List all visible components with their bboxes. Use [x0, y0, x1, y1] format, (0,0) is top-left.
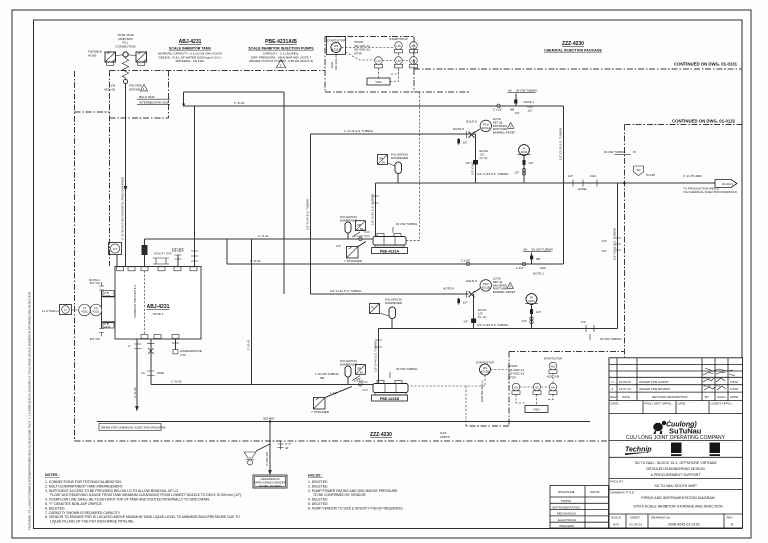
svg-text:PI: PI: [371, 306, 374, 310]
LT circle: [79, 304, 96, 316]
H3 right drop: [471, 134, 476, 183]
svg-text:VIA CHEMICAL INJECTION MANIFOL: VIA CHEMICAL INJECTION MANIFOLD: [683, 190, 738, 194]
dashed drop to boundary B: [465, 386, 467, 426]
svg-text:STN-5 SCALE INHIBITOR STORAGE: STN-5 SCALE INHIBITOR STORAGE AND INJECT…: [633, 505, 723, 509]
svg-text:3. SUFFICIENT ACCESS TO BE PR: 3. SUFFICIENT ACCESS TO BE PROVIDED BELO…: [45, 489, 178, 493]
svg-text:HOLD 8: HOLD 8: [466, 120, 477, 124]
level tag upper: [103, 291, 114, 299]
svg-text:PBE-4231A/B: PBE-4231A/B: [265, 39, 297, 45]
svg-text:HS: HS: [396, 44, 400, 48]
svg-text:DATE :: DATE :: [611, 402, 621, 406]
PSV cluster B: [443, 272, 544, 305]
svg-text:300 MIN: 300 MIN: [263, 417, 274, 421]
drain to header label: [265, 444, 272, 475]
svg-text:Technip: Technip: [625, 447, 652, 454]
svg-text:CHEMICAL INJECTION PACKAGE: CHEMICAL INJECTION PACKAGE: [544, 49, 602, 53]
start stop text B: [508, 364, 525, 379]
svg-text:1/2": 1/2": [602, 239, 607, 243]
svg-text:1/2": 1/2": [568, 174, 573, 178]
svg-text:4231-06: 4231-06: [104, 87, 115, 91]
suction dampener B: [340, 359, 365, 384]
H2 left drop to tank: [172, 106, 198, 267]
VSD box B: [525, 406, 548, 413]
svg-text:REVISION DESCRIPTION: REVISION DESCRIPTION: [652, 395, 688, 399]
hose connection square right: [128, 52, 147, 65]
svg-text:4231A: 4231A: [481, 126, 490, 130]
vent stub near drain: [278, 442, 291, 451]
riser A fittings: [465, 149, 488, 165]
VSD signal A: [406, 92, 420, 241]
svg-text:START/STOP: START/STOP: [544, 357, 563, 361]
pair B4: [549, 383, 557, 394]
package boundary right: [624, 125, 626, 442]
svg-text:BY12: BY12: [704, 384, 712, 388]
svg-text:NOTE 2: NOTE 2: [89, 278, 100, 282]
warning triangle under pump header: [276, 60, 285, 68]
svg-text:PIPING AND INSTRUMENTATION DIA: PIPING AND INSTRUMENTATION DIAGRAM: [641, 496, 714, 500]
svg-text:ABJ-4231: ABJ-4231: [147, 304, 170, 310]
svg-text:BY12: BY12: [704, 376, 712, 380]
svg-text:1/2"-O-43 S.S. TUBING: 1/2"-O-43 S.S. TUBING: [371, 193, 375, 225]
AV fitting on y264: [461, 248, 554, 271]
svg-text:1/2": 1/2": [515, 111, 520, 115]
suction manifold cross connect: [247, 239, 252, 384]
svg-text:ABJ-4231: ABJ-4231: [179, 39, 202, 45]
svg-text:HOLD 8: HOLD 8: [466, 279, 477, 283]
svg-text:1/2": 1/2": [602, 249, 607, 253]
svg-text:1/2"-O-46 S.S. TUBING: 1/2"-O-46 S.S. TUBING: [477, 323, 509, 327]
flexible hose zigzag: [122, 57, 128, 79]
svg-text:5. DELETED: 5. DELETED: [308, 502, 328, 506]
svg-text:1"-O-42 S.S. TUBING: 1"-O-42 S.S. TUBING: [344, 129, 374, 133]
tank bottom nozzles: [141, 335, 179, 339]
suction circle fitting A: [354, 234, 363, 241]
svg-text:(VENDOR TBD) NOTE 3: (VENDOR TBD) NOTE 3: [133, 284, 137, 318]
continued on dwg 01-0131: [414, 62, 742, 70]
svg-text:30 OW TUBING: 30 OW TUBING: [532, 248, 554, 252]
ESD rotated label A: [330, 53, 338, 70]
H3 left riser to train B: [306, 134, 311, 294]
fittings on H2 right: [493, 89, 538, 116]
svg-text:MECHANICAL: MECHANICAL: [557, 512, 577, 516]
suction circle fitting B: [354, 379, 363, 386]
svg-text:▲: ▲: [672, 448, 675, 452]
control cluster A start/stop box: [327, 37, 346, 55]
svg-text:1"x1/2": 1"x1/2": [461, 259, 470, 263]
svg-text:4231: 4231: [104, 294, 111, 298]
svg-text:1"-CI-75-4000: 1"-CI-75-4000: [683, 174, 702, 178]
svg-text:P&ID: P&ID: [157, 371, 165, 375]
svg-text:NOTE 8: NOTE 8: [443, 287, 454, 291]
svg-text:PI: PI: [360, 371, 363, 375]
bulk skid boundary top: [110, 70, 326, 72]
suction dampener A: [340, 215, 365, 239]
main discharge header: [376, 172, 716, 183]
line 1-O-42 H3: [311, 129, 476, 134]
svg-text:1/2": 1/2": [465, 161, 470, 165]
svg-text:C&C: C&C: [540, 266, 547, 270]
svg-text:& PROCUREMENT SUPPORT: & PROCUREMENT SUPPORT: [651, 473, 702, 477]
partner logo 1: [671, 443, 682, 457]
approval row labels: [611, 402, 734, 406]
revision header row: [610, 395, 739, 399]
svg-text:1/2"-O-44 S.S. TUBING: 1/2"-O-44 S.S. TUBING: [330, 289, 362, 293]
svg-text:5. "Y" DENOTES NON-ASP ORIFIC: 5. "Y" DENOTES NON-ASP ORIFICE.: [45, 502, 103, 506]
svg-text:1/2"-O-44 S.S. TUBING: 1/2"-O-44 S.S. TUBING: [306, 198, 310, 230]
svg-text:1/2": 1/2": [514, 171, 519, 175]
svg-text:30 OW TUBING: 30 OW TUBING: [516, 89, 538, 93]
svg-text:2008-4242-01-0130: 2008-4242-01-0130: [668, 523, 700, 527]
svg-text:4231A: 4231A: [332, 48, 341, 52]
svg-text:1"-O-41: 1"-O-41: [247, 339, 251, 350]
svg-text:ISSUED FOR REVIEW: ISSUED FOR REVIEW: [639, 387, 670, 391]
svg-text:4231: 4231: [93, 310, 100, 314]
PI gauge A right: [514, 145, 534, 183]
bottom data row: [609, 514, 743, 528]
tank feed line: [121, 84, 128, 267]
valve stack right: [602, 238, 621, 253]
svg-text:NOTE 8: NOTE 8: [453, 127, 464, 131]
train A suction line: [145, 234, 374, 239]
revision row 0: [612, 387, 739, 391]
svg-text:CONN. 01-0150: CONN. 01-0150: [259, 484, 281, 488]
flexible hose label: [88, 50, 102, 58]
utility station: [153, 252, 173, 265]
svg-text:ESD SD-4231-1: ESD SD-4231-1: [480, 380, 484, 402]
train B top line: [311, 289, 469, 294]
drain header line: [97, 417, 590, 422]
pump B discharge riser: [374, 329, 382, 384]
svg-text:NOTE 2: NOTE 2: [153, 312, 164, 316]
svg-text:1-1/2": 1-1/2": [516, 266, 524, 270]
pump PBE-4231A: [372, 234, 408, 254]
tank top nozzles: [117, 267, 198, 271]
svg-text:STOP: STOP: [508, 375, 516, 379]
svg-text:LIT: LIT: [113, 247, 118, 251]
svg-text:UA: UA: [514, 386, 518, 390]
header pumps PBE-4231A/B: [248, 39, 314, 63]
fill node: [123, 52, 128, 57]
CuuLong SuTuNau logo: [653, 420, 702, 436]
H1 to H2 drop: [182, 92, 185, 107]
svg-text:PIPING: PIPING: [561, 499, 572, 503]
svg-text:SCALE INHIBITOR TANK: SCALE INHIBITOR TANK: [169, 47, 212, 51]
svg-text:KJUR: KJUR: [730, 380, 739, 384]
svg-text:1/2"-O-43 S.S. TUBING: 1/2"-O-43 S.S. TUBING: [477, 172, 509, 176]
svg-text:1. CONNECTIONS FOR TESTING/CA: 1. CONNECTIONS FOR TESTING/CALIBRATION.: [45, 480, 122, 484]
svg-text:(S. N): (S. N): [480, 156, 488, 160]
svg-text:1/2": 1/2": [336, 244, 341, 248]
VSD box A: [367, 78, 390, 85]
drain package label: [99, 424, 166, 431]
svg-text:6. DELETED.: 6. DELETED.: [45, 506, 65, 510]
svg-text:PBE-4231B: PBE-4231B: [380, 397, 400, 401]
gas limits note: [440, 431, 450, 439]
UA pair A1: [375, 57, 383, 68]
right riser x617: [613, 183, 618, 329]
package boundary bottom: [75, 440, 626, 442]
svg-text:XA: XA: [411, 44, 415, 48]
PI square B: [370, 304, 380, 314]
holds list: [308, 480, 404, 510]
svg-text:ISSUED FOR HAZOP: ISSUED FOR HAZOP: [639, 380, 669, 384]
level bridle: [89, 278, 115, 341]
hose connection square left: [105, 52, 123, 65]
svg-text:XA: XA: [551, 386, 555, 390]
logo row divider: [609, 441, 743, 458]
svg-text:FACILITY :: FACILITY :: [611, 480, 626, 484]
svg-text:NB: NB: [536, 257, 540, 261]
svg-text:1"x1/2": 1"x1/2": [354, 234, 363, 238]
svg-text:NB: NB: [320, 376, 324, 380]
svg-text:L 10 OW TUBING: L 10 OW TUBING: [315, 372, 340, 376]
svg-text:CHKD: CHKD: [717, 395, 726, 399]
partner logo 2: [710, 443, 721, 457]
svg-text:ZZZ-4230: ZZZ-4230: [370, 432, 392, 438]
svg-text:HOLDS :: HOLDS :: [308, 474, 323, 478]
svg-text:BY: BY: [705, 395, 709, 399]
control skid A boundary: [325, 37, 470, 93]
feed strainer dark: [142, 239, 148, 267]
svg-text:1/2": 1/2": [463, 301, 468, 305]
svg-text:DATE :: DATE :: [678, 402, 688, 406]
svg-text:10.08.13: 10.08.13: [619, 380, 631, 384]
svg-text:6. PUMP VENDOR TO SIZE & SPEC: 6. PUMP VENDOR TO SIZE & SPECIFY PSH (IF…: [308, 506, 404, 510]
svg-text:FLOAT W/O REMOVING GAUGE FROM: FLOAT W/O REMOVING GAUGE FROM TANK MINIM…: [50, 493, 242, 497]
svg-text:SHEET: SHEET: [630, 516, 640, 520]
LG circle: [90, 304, 102, 316]
header package ZZZ-4230: [544, 41, 602, 53]
top line H1: [184, 91, 285, 93]
svg-text:Y STRAINER: Y STRAINER: [311, 410, 330, 414]
svg-text:HS: HS: [551, 365, 555, 369]
svg-text:40: 40: [285, 446, 289, 450]
svg-text:P.L.: P.L.: [717, 384, 722, 388]
UC pair A2: [395, 57, 403, 68]
svg-text:SD-4231-10: SD-4231-10: [334, 53, 338, 70]
LL level text: [42, 309, 59, 313]
svg-text:ELECTRICAL: ELECTRICAL: [558, 518, 577, 522]
svg-text:KJUR: KJUR: [730, 387, 739, 391]
svg-text:DAMPENER: DAMPENER: [385, 301, 403, 305]
Technip logo: [625, 447, 652, 456]
LI box on boundary: [60, 305, 79, 315]
svg-text:START/STOP: START/STOP: [389, 37, 408, 41]
LIT instrument box on tank top: [109, 243, 122, 267]
signature scribbles: [703, 368, 735, 390]
cluster A signal wires: [342, 48, 414, 82]
svg-text:30 OW TUBING: 30 OW TUBING: [600, 337, 622, 341]
UY pair A3: [410, 57, 418, 68]
svg-text:VSD: VSD: [533, 408, 540, 412]
notes list: [45, 480, 242, 524]
svg-text:1-1/2": 1-1/2": [330, 391, 338, 395]
svg-text:1"-O-41: 1"-O-41: [258, 234, 269, 238]
holds heading: [308, 474, 323, 478]
svg-text:DATE: DATE: [622, 395, 630, 399]
svg-text:LL # 700mm: LL # 700mm: [42, 309, 59, 313]
revision table grid: [609, 358, 743, 414]
svg-text:8. VENDOR TO ENSURE PSH IS LO: 8. VENDOR TO ENSURE PSH IS LOCATED ABOVE…: [45, 515, 240, 519]
svg-text:BARREL RESET: BARREL RESET: [493, 131, 516, 135]
svg-text:UA: UA: [376, 59, 380, 63]
svg-text:LIMITS: LIMITS: [440, 435, 450, 439]
svg-text:TO BE CONFIRMED BY VENDOR.: TO BE CONFIRMED BY VENDOR.: [313, 493, 366, 497]
svg-text:PI-128: PI-128: [646, 173, 655, 177]
fitting stub x178: [172, 249, 184, 267]
svg-text:NOTE 1: NOTE 1: [533, 272, 544, 276]
svg-text:STOP: STOP: [354, 51, 362, 55]
svg-text:CONTINUED ON DWG. 01-0131: CONTINUED ON DWG. 01-0131: [674, 62, 738, 67]
svg-text:1/2": 1/2": [529, 161, 534, 165]
header tank ABJ-4231: [158, 39, 223, 63]
svg-text:4231: 4231: [521, 150, 528, 154]
svg-text:DRAWING TITLE :: DRAWING TITLE :: [611, 491, 636, 495]
svg-text:(S. N): (S. N): [478, 315, 486, 319]
svg-text:4231: 4231: [528, 299, 535, 303]
svg-text:1/2"-CI-30 S.S. TUBING: 1/2"-CI-30 S.S. TUBING: [559, 127, 563, 160]
skid labels bulk/intermediate: [137, 95, 170, 105]
svg-text:2"W: 2"W: [180, 353, 186, 357]
svg-text:CUU LONG JOINT OPERATING COMPA: CUU LONG JOINT OPERATING COMPANY: [626, 435, 726, 441]
line 1-D-40 H2: [184, 101, 564, 106]
control cluster B start/stop: [476, 361, 495, 376]
svg-text:2"-O-40-XXX NO POCKETS, FREE: 2"-O-40-XXX NO POCKETS, FREE DRAINING: [121, 176, 125, 240]
svg-text:30 OW TUBING: 30 OW TUBING: [604, 150, 626, 154]
project description text: [635, 461, 717, 477]
notes heading: [45, 473, 60, 477]
svg-text:MATERIAL : SS 316L: MATERIAL : SS 316L: [176, 59, 205, 63]
ZZZ-4230 boundary label: [370, 432, 392, 438]
svg-text:PROCESS: PROCESS: [560, 524, 575, 528]
svg-text:P.L.: P.L.: [717, 376, 722, 380]
pair A5: [410, 42, 418, 53]
svg-text:INSTRUMENTATION: INSTRUMENTATION: [552, 505, 580, 509]
fittings header B: [581, 320, 622, 341]
PI gauge B: [522, 294, 542, 329]
svg-text:1-1/2": 1-1/2": [358, 228, 366, 232]
svg-text:4231B: 4231B: [481, 370, 490, 374]
discipline table: [550, 486, 609, 529]
svg-text:1"-O-45: 1"-O-45: [171, 380, 182, 384]
svg-text:1/2"-CI-32 S.S. TUBING: 1/2"-CI-32 S.S. TUBING: [613, 227, 617, 260]
pump A discharge riser: [371, 183, 379, 237]
svg-text:2"-O-46: 2"-O-46: [133, 387, 137, 398]
svg-text:INTERMEDIATE SKID: INTERMEDIATE SKID: [139, 101, 170, 105]
margin file path text: [28, 292, 32, 530]
tank internal dip tube: [144, 271, 146, 334]
svg-text:NTS: NTS: [613, 523, 619, 527]
pump B tubing labels: [315, 367, 418, 380]
svg-text:1/2"-O-46 S.S. TUBING: 1/2"-O-46 S.S. TUBING: [374, 340, 378, 372]
hazardous open drain box: [253, 475, 287, 488]
svg-text:CONNECTION: CONNECTION: [115, 44, 135, 48]
svg-text:1. DELETED: 1. DELETED: [308, 480, 328, 484]
svg-text:1/2": 1/2": [536, 310, 541, 314]
tank ABJ-4231: [115, 267, 201, 340]
svg-text:LIQUID FILLING OF THE PSV DISC: LIQUID FILLING OF THE PSV DISCHARGE PIPE…: [50, 520, 134, 524]
svg-text:AV: AV: [524, 248, 528, 252]
off-page connector to wells: [683, 174, 738, 194]
bulk skid boundary divider: [75, 71, 169, 267]
svg-text:NOTES :: NOTES :: [45, 473, 60, 477]
svg-text:SP: SP: [636, 168, 640, 172]
svg-text:2. MULTI-COMPARTMENT TANK ARR: 2. MULTI-COMPARTMENT TANK ARRANGEMENT.: [45, 484, 123, 488]
svg-text:4231: 4231: [104, 325, 111, 329]
cluster B signal wires: [408, 370, 553, 406]
PSV cluster A: [453, 117, 516, 145]
svg-text:HOSE: HOSE: [578, 187, 587, 191]
PI square A: [378, 155, 396, 167]
CUU LONG JOINT OPERATING COMPANY: [626, 435, 726, 441]
svg-text:LI: LI: [64, 308, 67, 312]
svg-text:1/2": 1/2": [356, 377, 361, 381]
hose lower node: [124, 80, 128, 84]
svg-text:UY: UY: [411, 59, 415, 63]
svg-text:INITIAL: INITIAL: [590, 490, 601, 494]
facility row: [609, 479, 743, 489]
start/stop pair A4: [389, 37, 408, 53]
H2 right drop: [559, 106, 564, 264]
svg-text:REV.: REV.: [727, 516, 734, 520]
svg-text:7. CAPACITY SHOWN IS REQUIRED: 7. CAPACITY SHOWN IS REQUIRED CAPACITY.: [45, 511, 121, 515]
svg-text:4. DELETED: 4. DELETED: [308, 498, 328, 502]
svg-text:30 OW TUBING: 30 OW TUBING: [396, 367, 418, 371]
tank drain to open drain: [128, 339, 141, 412]
suction fittings B: [356, 377, 368, 390]
svg-text:AV: AV: [508, 89, 512, 93]
pulsation dampener B: [380, 298, 403, 329]
fittings on header A: [568, 174, 597, 191]
svg-text:3/4" NC: 3/4" NC: [90, 337, 101, 341]
svg-text:4. OVERFLOW LINE SHALL BE FLU: 4. OVERFLOW LINE SHALL BE FLUSH WITH TOP…: [45, 498, 210, 502]
svg-text:START/STOP: START/STOP: [327, 39, 346, 43]
svg-text:UTILITY STA.: UTILITY STA.: [154, 252, 173, 256]
drain funnel: [244, 444, 270, 465]
ESD label B: [480, 380, 484, 402]
svg-text:1/2": 1/2": [463, 141, 468, 145]
train B discharge header: [379, 323, 618, 329]
drain junction: [269, 420, 271, 444]
svg-text:HOSE: HOSE: [88, 53, 97, 57]
svg-text:SU TU NAU - BLOCK 15-1, OFFSHO: SU TU NAU - BLOCK 15-1, OFFSHORE VIETNAM: [635, 461, 717, 465]
svg-text:C&C: C&C: [590, 174, 597, 178]
revision row C: [612, 380, 739, 384]
svg-text:DAMPENER: DAMPENER: [391, 156, 409, 160]
warning triangle near hose: [140, 85, 147, 92]
SP shield symbol: [634, 166, 656, 177]
svg-text:1/2": 1/2": [463, 320, 468, 324]
start stop text A: [354, 40, 371, 55]
tote tank fill connection text: [115, 33, 135, 48]
svg-text:1"-D-40: 1"-D-40: [234, 101, 245, 105]
level tag lower: [103, 322, 114, 330]
pump PBE-4231B: [372, 381, 409, 402]
Y strainer B: [311, 387, 352, 415]
ITB grid labels: [104, 84, 143, 92]
title block outline: [609, 358, 743, 528]
pulsation dampener A: [391, 153, 409, 184]
svg-text:PBE-4231A: PBE-4231A: [380, 250, 400, 254]
svg-text:1/2": 1/2": [581, 320, 586, 324]
svg-text:2": 2": [128, 344, 131, 348]
svg-text:DRAIN FOR CHEMICAL INJECTION P: DRAIN FOR CHEMICAL INJECTION PACKAGE: [101, 426, 166, 430]
Y strainer A: [336, 242, 366, 264]
junction right main: [604, 150, 636, 184]
svg-text:PI: PI: [382, 161, 385, 165]
svg-text:1"x1/2": 1"x1/2": [493, 108, 502, 112]
svg-text:DISCIPLINE: DISCIPLINE: [558, 490, 575, 494]
